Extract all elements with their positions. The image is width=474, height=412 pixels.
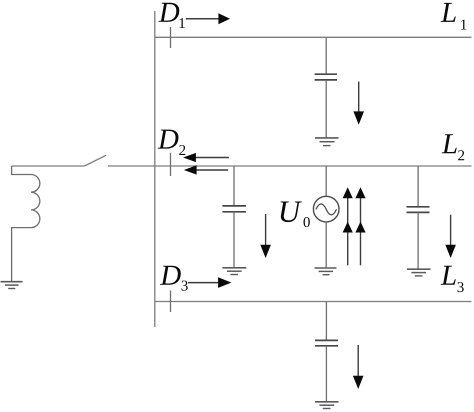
arrow down (current in C3 branch) <box>450 215 452 246</box>
arrow down (current in C2 branch) <box>265 214 267 246</box>
capacitor C1 lower lead <box>325 80 327 138</box>
inductor L (antenna coil) <box>12 166 40 282</box>
node D3 port tick <box>170 291 172 313</box>
capacitor C3 lower lead <box>417 212 419 269</box>
capacitor C3 plates <box>407 206 430 208</box>
arrow left upper at D2 <box>196 157 229 159</box>
source U0 sine wave <box>316 204 337 215</box>
wire vertical bus <box>154 11 156 327</box>
source U0 circle <box>313 196 339 222</box>
ground (below C1) <box>315 138 339 146</box>
ground (below C3) <box>407 269 431 276</box>
capacitor C2 lead from row2 <box>233 166 235 206</box>
wire row D3/L3 horizontal <box>155 301 472 303</box>
capacitor C2 plates <box>222 205 246 207</box>
arrow right at D1 <box>186 18 221 20</box>
ground (left, below inductor) <box>1 282 23 289</box>
ground (below U0) <box>315 268 337 275</box>
capacitor C4 plates <box>315 339 338 341</box>
capacitor C1 lead from row1 <box>325 37 327 74</box>
wire row D2/L2 left segment <box>12 165 85 167</box>
arrow down (current in C1 branch) <box>358 82 360 113</box>
arrow down (current in C4 branch) <box>357 345 359 377</box>
node D2 port tick <box>170 153 172 176</box>
source U0 lower lead <box>325 221 327 267</box>
ground (below C2) <box>222 268 246 275</box>
label D3 <box>160 266 181 285</box>
capacitor C4 lead from row3 <box>325 302 327 341</box>
arrow up double pair 1 (left line) <box>347 191 349 265</box>
arrow right at D3 <box>188 282 220 284</box>
capacitor C4 lower lead <box>325 346 327 402</box>
arrow up double pair 2 (right line) <box>360 191 362 265</box>
node D1 port tick <box>170 27 172 48</box>
label D2 <box>158 130 179 149</box>
capacitor C1 plates <box>315 73 337 75</box>
wire row D1/L1 horizontal <box>155 36 472 38</box>
label L1 <box>441 3 456 22</box>
source U0 upper lead <box>325 166 327 197</box>
switch S blade <box>85 155 107 166</box>
capacitor C3 lead from row2 (right) <box>417 166 419 207</box>
arrow left lower at D2 <box>196 169 228 171</box>
capacitor C2 lower lead <box>233 212 235 268</box>
wire row D2/L2 right segment <box>108 165 472 167</box>
label L3 <box>441 266 456 285</box>
label D1 <box>158 3 179 22</box>
ground (below C4) <box>315 402 339 409</box>
label U0 <box>281 202 302 223</box>
label L2 <box>442 134 457 153</box>
